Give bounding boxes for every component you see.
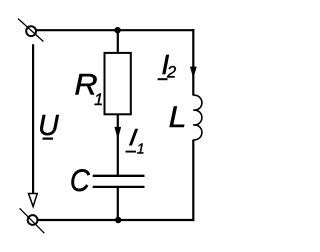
terminal bottom-left [28,215,38,225]
svg-text:2: 2 [166,64,176,82]
wire middle branch below C [117,188,119,220]
wire right vertical lower [192,140,194,222]
capacitor C bottom plate [93,186,145,188]
svg-text:U: U [38,110,59,142]
inductor L coil [193,95,202,140]
junction node bottom [115,217,121,223]
svg-text:1: 1 [94,91,103,109]
current arrow I1 [114,127,121,139]
wire middle branch top [117,29,119,53]
current arrow I2 [190,67,197,79]
svg-text:C: C [70,163,90,198]
terminal top-left diagonal stroke [18,19,43,42]
wire top horizontal [36,29,194,31]
wire middle branch between R and C [117,114,119,175]
label I1 underline [126,151,137,153]
junction node top [114,27,120,33]
resistor R1 body [105,53,131,114]
capacitor C top plate [93,175,145,177]
voltage arrow U shaft [32,44,34,193]
terminal top-left [26,26,36,36]
label I2 underline [158,78,168,80]
svg-text:L: L [169,100,187,134]
voltage arrow U open head [29,194,38,207]
terminal bottom-left diagonal stroke [20,208,45,233]
wire right vertical upper [192,29,194,95]
svg-text:1: 1 [137,142,145,158]
wire bottom horizontal [38,219,195,221]
label U underline [43,138,54,140]
